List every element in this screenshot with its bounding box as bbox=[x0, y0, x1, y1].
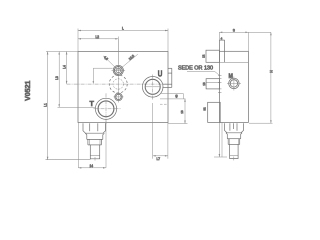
svg-text:U: U bbox=[158, 70, 163, 79]
svg-text:4: 4 bbox=[221, 36, 223, 40]
dimension L3 bbox=[58, 52, 96, 108]
svg-text:T: T bbox=[90, 99, 95, 108]
dashed circle inner bbox=[113, 79, 123, 89]
dimension 18 right bbox=[168, 99, 188, 124]
svg-text:12: 12 bbox=[202, 54, 206, 58]
wire top extension left bbox=[46, 51, 78, 53]
dimension S top bbox=[219, 32, 271, 52]
svg-text:S: S bbox=[233, 28, 235, 32]
svg-text:L2: L2 bbox=[96, 35, 100, 39]
dimension L2 bbox=[78, 37, 118, 65]
horizontal centerline bbox=[67, 83, 167, 85]
stem bottom extension line bbox=[46, 159, 91, 161]
svg-text:H: H bbox=[270, 70, 274, 73]
right cartridge fitting bbox=[225, 123, 244, 160]
svg-text:L7: L7 bbox=[157, 157, 161, 161]
port U circle bbox=[142, 75, 163, 100]
dashed circle bbox=[109, 75, 127, 93]
dimension L bbox=[78, 29, 168, 52]
upper flange bbox=[206, 50, 248, 62]
leader 4,5 bbox=[104, 56, 119, 71]
svg-text:40: 40 bbox=[174, 94, 178, 98]
dimension 14 bottom bbox=[78, 119, 106, 169]
svg-text:14: 14 bbox=[90, 164, 94, 168]
svg-text:L4: L4 bbox=[63, 65, 67, 69]
dimension L7 bbox=[153, 103, 168, 159]
leader 10,5 bbox=[118, 54, 138, 70]
svg-text:18: 18 bbox=[180, 110, 184, 114]
front view block outline bbox=[78, 52, 168, 123]
svg-text:SEDE OR 130: SEDE OR 130 bbox=[178, 65, 213, 71]
svg-text:32: 32 bbox=[202, 107, 206, 111]
lower flange bbox=[208, 102, 221, 122]
svg-text:L3: L3 bbox=[55, 76, 59, 80]
svg-text:M: M bbox=[229, 73, 233, 80]
leader SEDE bbox=[187, 71, 219, 75]
svg-text:10,5: 10,5 bbox=[128, 54, 135, 61]
chimney on top bbox=[219, 40, 224, 62]
dash segment right of T bbox=[160, 103, 168, 105]
dimension H right bbox=[249, 32, 273, 123]
port M circle bbox=[227, 77, 241, 91]
dimension L1 bbox=[46, 52, 91, 160]
dimension 40 small bbox=[160, 94, 186, 99]
svg-text:L: L bbox=[122, 27, 124, 31]
left cartridge fitting bbox=[83, 123, 106, 160]
svg-text:V0521: V0521 bbox=[25, 80, 32, 100]
side view main body bbox=[219, 51, 248, 122]
vertical centerline top column bbox=[117, 39, 119, 103]
dimension L4 bbox=[66, 52, 68, 84]
threaded hole top bbox=[112, 65, 126, 75]
dimension below side view bbox=[214, 122, 227, 157]
OR seat boss side view bbox=[206, 75, 221, 92]
leader L-line top circle bbox=[93, 68, 113, 84]
small threaded hole bbox=[114, 93, 124, 101]
port T circle bbox=[94, 93, 121, 124]
svg-text:L1: L1 bbox=[44, 103, 48, 107]
svg-text:18: 18 bbox=[202, 82, 206, 86]
boss on right edge bbox=[163, 68, 172, 87]
